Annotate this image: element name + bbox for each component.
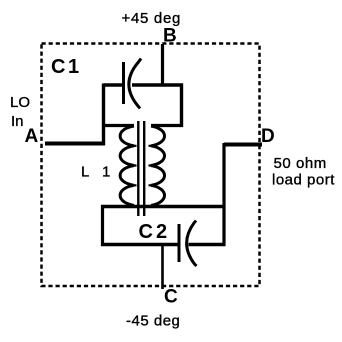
label 50 ohm load port <box>272 155 335 189</box>
wire right vertical (top box) <box>180 84 183 128</box>
svg-text:L 1: L 1 <box>81 164 115 181</box>
enclosure dashed box <box>42 44 260 287</box>
svg-text:LO: LO <box>10 94 30 111</box>
wire to node D <box>224 143 262 147</box>
capacitor C2 <box>179 221 197 267</box>
wire top right segment <box>132 83 183 86</box>
wire bottom left segment <box>101 243 178 247</box>
wire bottom right segment <box>189 243 226 246</box>
svg-text:A: A <box>25 126 39 147</box>
transformer L1 <box>120 121 164 216</box>
wire top left segment <box>104 83 123 86</box>
svg-text:In: In <box>11 113 24 130</box>
wire transformer top-right <box>151 124 183 127</box>
svg-text:C2: C2 <box>139 221 171 243</box>
svg-text:C1: C1 <box>51 56 82 78</box>
wire from B down to top wire <box>161 44 164 86</box>
wire transformer bottom rail <box>101 205 224 208</box>
capacitor C1 <box>124 59 142 109</box>
label LO In <box>10 94 30 130</box>
wire to node C <box>161 245 164 289</box>
svg-text:+45 deg: +45 deg <box>122 10 182 27</box>
wire from A to left vertical <box>45 142 105 146</box>
svg-text:50 ohm: 50 ohm <box>274 155 327 172</box>
wire right vertical <box>222 143 225 246</box>
wire transformer top-left <box>102 124 134 127</box>
svg-text:D: D <box>261 126 275 147</box>
svg-text:load port: load port <box>272 172 335 189</box>
wire bottom-left vertical <box>101 205 104 246</box>
svg-text:-45 deg: -45 deg <box>126 313 180 330</box>
wire left vertical <box>102 84 105 146</box>
svg-text:C: C <box>164 287 178 308</box>
svg-text:B: B <box>163 26 177 47</box>
